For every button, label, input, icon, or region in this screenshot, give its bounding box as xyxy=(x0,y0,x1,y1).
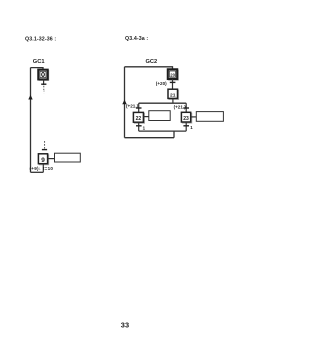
step 22 xyxy=(133,112,144,123)
svg-text:(+9)↓ t=10: (+9)↓ t=10 xyxy=(30,166,54,171)
action box of step 22 xyxy=(149,111,170,121)
wire convergence drop xyxy=(173,131,175,138)
transition bar above step 9 xyxy=(42,149,47,151)
arrow up on GC2 rail xyxy=(122,100,126,105)
svg-text:(+21.): (+21.) xyxy=(126,104,139,109)
initial step 20 (double box) xyxy=(168,69,178,80)
transition bar below step 0 xyxy=(41,83,46,85)
svg-text:GC1: GC1 xyxy=(33,59,45,65)
wire GC2 bottom return xyxy=(125,137,175,139)
action box of step 23 xyxy=(196,112,223,122)
wire below step 22 xyxy=(138,122,140,131)
transition bar below step 23 xyxy=(183,125,189,127)
wire below step 21 xyxy=(172,98,174,103)
wire step 9 to action box xyxy=(48,158,55,160)
wire below step 0 xyxy=(43,79,45,85)
svg-text:9: 9 xyxy=(41,157,45,164)
wire GC2 top into step 20 xyxy=(125,67,173,70)
svg-text:(+20): (+20) xyxy=(156,81,167,86)
wire below step 9 xyxy=(42,164,44,173)
dashed wire resuming above step 9 xyxy=(44,141,46,149)
wire left branch down xyxy=(138,103,140,112)
wire GC1 left return rail xyxy=(30,68,32,173)
wire below step 20 xyxy=(172,79,174,89)
svg-text:21: 21 xyxy=(170,92,176,98)
transition bar above step 22 xyxy=(136,107,142,109)
transition bar below step 20 xyxy=(170,81,176,83)
step 21 xyxy=(168,89,179,99)
divergence wire xyxy=(139,102,187,104)
wire below step 23 xyxy=(185,122,187,131)
svg-text:(+21.): (+21.) xyxy=(174,104,187,109)
convergence wire xyxy=(139,130,187,132)
svg-text:GC2: GC2 xyxy=(146,59,158,65)
svg-text:Q3.1-32-36 :: Q3.1-32-36 : xyxy=(25,37,56,43)
wire step 22 to action box xyxy=(143,116,148,118)
svg-text:22: 22 xyxy=(136,116,142,122)
step 23 xyxy=(181,112,191,123)
wire right branch down xyxy=(185,103,187,112)
svg-text:23: 23 xyxy=(183,116,189,122)
arrow up on GC1 rail xyxy=(28,95,32,100)
initial step 0 (double box) xyxy=(38,70,48,81)
dashed continuation wire (omitted steps) xyxy=(43,86,45,90)
wire GC1 bottom return xyxy=(31,171,44,173)
wire GC1 top into step 0 xyxy=(31,68,44,70)
svg-text:33: 33 xyxy=(121,321,130,330)
transition bar below step 22 xyxy=(136,125,142,127)
wire GC2 left return rail xyxy=(124,67,126,138)
action box of step 9 xyxy=(55,153,81,162)
svg-text:Q3.4-3a :: Q3.4-3a : xyxy=(125,36,148,42)
transition bar above step 23 xyxy=(183,107,189,109)
step 9 xyxy=(38,154,48,165)
wire step 23 to action box xyxy=(191,116,197,118)
svg-text:20: 20 xyxy=(170,72,175,77)
